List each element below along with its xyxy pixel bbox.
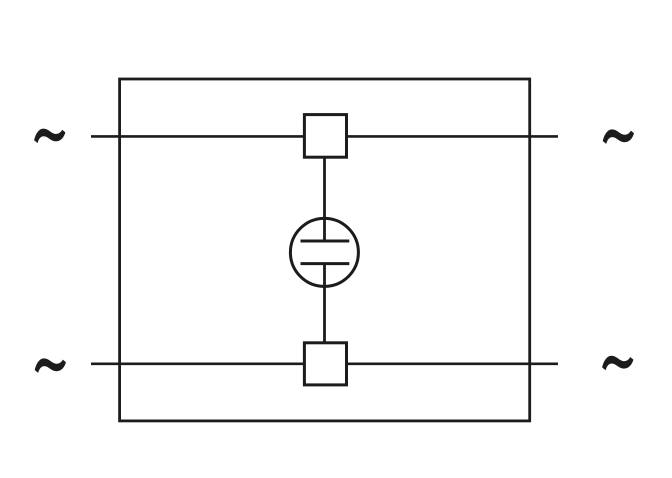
wire: top conductor, right lead <box>345 135 558 138</box>
wire: bottom conductor, left lead <box>91 362 306 365</box>
AC symbol (~) bottom-left <box>35 358 66 373</box>
protective element square, bottom conductor <box>304 343 346 385</box>
protective element square, top conductor <box>304 115 346 158</box>
module outline (surge arrester block) <box>120 79 530 421</box>
wire: top conductor, left lead <box>91 135 306 138</box>
wire: bottom conductor, right lead <box>345 362 558 365</box>
wire: vertical link, GDT lower electrode to bottom square <box>323 264 326 343</box>
gas discharge tube: envelope circle <box>290 218 358 286</box>
gas discharge tube: upper electrode bar <box>301 240 350 243</box>
AC symbol (~) bottom-right <box>602 356 633 371</box>
wire: vertical link, top square to GDT upper electrode <box>323 157 326 241</box>
AC symbol (~) top-left <box>34 129 65 144</box>
AC symbol (~) top-right <box>603 129 634 144</box>
gas discharge tube: lower electrode bar <box>301 262 350 265</box>
